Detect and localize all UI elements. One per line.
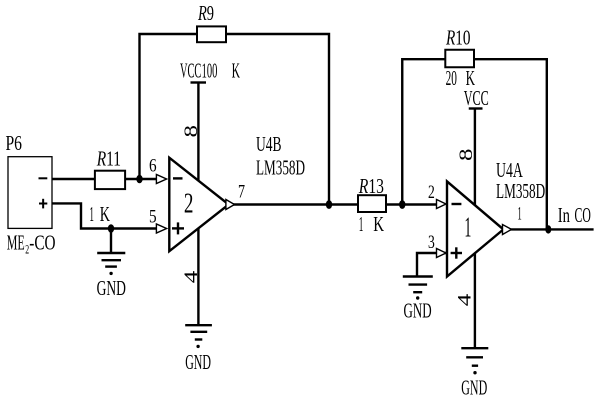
label ME2-CO of P6 xyxy=(7,231,56,257)
svg-text:P6: P6 xyxy=(6,131,23,155)
pin 7 output arrow of U4B xyxy=(226,200,235,210)
ground at U4B pin 4 xyxy=(185,325,212,374)
power VCC symbol at U4B pin 8 xyxy=(180,59,206,83)
svg-text:In: In xyxy=(558,203,571,227)
svg-text:VCC: VCC xyxy=(180,59,201,83)
svg-text:1: 1 xyxy=(464,212,471,244)
svg-text:R11: R11 xyxy=(96,147,121,171)
svg-text:4: 4 xyxy=(181,270,202,283)
resistor R9 xyxy=(197,1,226,42)
resistor R10 xyxy=(445,26,474,68)
svg-text:GND: GND xyxy=(404,299,432,323)
wire U4B pin 8 xyxy=(197,83,199,186)
svg-text:1: 1 xyxy=(89,202,94,226)
junction at U4A output node xyxy=(545,225,551,233)
pin 5 arrow of U4B xyxy=(156,224,166,233)
svg-text:7: 7 xyxy=(238,182,245,203)
svg-text:-CO: -CO xyxy=(29,231,55,255)
svg-text:GND: GND xyxy=(461,376,487,400)
svg-text:R10: R10 xyxy=(445,26,470,50)
wire feedback loop around U4A xyxy=(402,59,547,229)
junction at U4B output node xyxy=(326,200,332,209)
svg-text:VCC: VCC xyxy=(464,86,489,110)
ground at U4B pin 5 xyxy=(97,229,126,300)
svg-text:LM358D: LM358D xyxy=(256,155,305,179)
wire U4B pin 4 xyxy=(197,224,199,325)
svg-text:5: 5 xyxy=(149,207,157,228)
svg-text:2: 2 xyxy=(428,182,435,203)
svg-text:3: 3 xyxy=(428,232,435,253)
wire U4A pin 3 to ground xyxy=(417,253,446,277)
pin 2 arrow of U4A xyxy=(437,200,447,209)
svg-text:6: 6 xyxy=(149,156,157,177)
junction at R13 output node xyxy=(399,200,405,209)
value 100 K of R9 xyxy=(202,59,240,83)
net label In CO xyxy=(558,203,591,227)
resistor R13 xyxy=(358,174,386,212)
svg-text:1: 1 xyxy=(518,204,522,225)
svg-text:GND: GND xyxy=(185,350,211,374)
svg-text:LM358D: LM358D xyxy=(496,179,545,203)
wire feedback loop around U4B xyxy=(140,34,330,205)
op-amp U4B xyxy=(169,158,228,252)
resistor R11 xyxy=(95,147,125,190)
svg-text:ME: ME xyxy=(7,231,25,255)
svg-text:20: 20 xyxy=(446,66,457,90)
svg-text:R13: R13 xyxy=(358,174,384,198)
value 1 K of R11 xyxy=(89,202,110,226)
svg-text:4: 4 xyxy=(455,293,476,306)
junction at U4B pin 5 node xyxy=(108,224,114,233)
junction at R11 output node xyxy=(136,175,142,184)
svg-text:CO: CO xyxy=(575,203,591,227)
pin 3 arrow of U4A xyxy=(437,249,447,258)
pin 1 output arrow of U4A xyxy=(503,225,512,235)
wire U4B output to R13 to U4A pin 2 xyxy=(228,203,437,205)
wire U4A pin 8 xyxy=(474,109,476,211)
connector P6 xyxy=(6,131,53,228)
svg-text:100: 100 xyxy=(202,59,218,83)
wire from P6 plus to U4B pin 5 xyxy=(52,203,157,228)
wire from P6 minus to U4B pin 6 xyxy=(52,178,157,180)
svg-text:U4B: U4B xyxy=(256,132,282,156)
svg-text:GND: GND xyxy=(97,276,126,300)
wire U4A pin 4 xyxy=(474,250,476,348)
svg-text:8: 8 xyxy=(181,125,202,138)
pin 6 arrow of U4B xyxy=(156,175,166,184)
ground at U4A pin 4 xyxy=(461,348,488,400)
svg-text:K: K xyxy=(100,202,110,226)
svg-text:1: 1 xyxy=(359,212,364,236)
value 20 K of R10 xyxy=(446,66,475,90)
svg-text:8: 8 xyxy=(456,148,477,161)
svg-text:K: K xyxy=(232,59,240,83)
svg-text:R9: R9 xyxy=(197,1,214,25)
wire U4A output to In CO xyxy=(503,228,594,230)
value 1 K of R13 xyxy=(359,212,384,236)
power VCC symbol at U4A pin 8 xyxy=(464,86,489,110)
ground at U4A pin 3 xyxy=(403,277,433,323)
svg-text:2: 2 xyxy=(184,188,194,220)
op-amp U4A xyxy=(447,181,503,276)
svg-text:K: K xyxy=(373,212,384,236)
